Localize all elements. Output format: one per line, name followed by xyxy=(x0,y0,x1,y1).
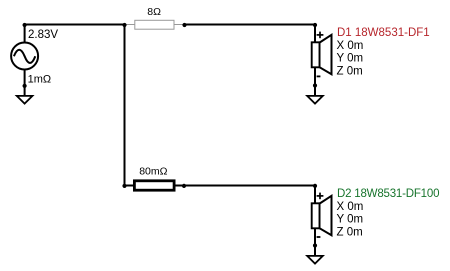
speaker driver D1 xyxy=(312,25,332,86)
resistor R2 80m ohm xyxy=(125,181,185,190)
wire D2 to ground xyxy=(314,246,316,257)
svg-text:Z 0m: Z 0m xyxy=(337,65,363,77)
svg-text:2.83V: 2.83V xyxy=(28,29,58,41)
plus terminal mark D1 xyxy=(317,32,324,39)
wire source bottom to ground xyxy=(24,86,26,97)
plus terminal mark D2 xyxy=(317,193,324,200)
svg-text:1mΩ: 1mΩ xyxy=(28,74,52,86)
minus terminal mark D1 xyxy=(317,75,321,77)
ground under source xyxy=(17,96,33,104)
ground under D2 xyxy=(307,256,323,264)
node junction dot at source bottom xyxy=(23,84,27,88)
svg-text:Z 0m: Z 0m xyxy=(337,226,363,238)
svg-text:D1 18W8531-DF1: D1 18W8531-DF1 xyxy=(337,27,430,39)
junction dot under D1 xyxy=(313,83,317,87)
wire from R1 to driver D1 xyxy=(185,24,316,26)
wire top from source to R1 xyxy=(25,24,125,26)
svg-text:Y 0m: Y 0m xyxy=(337,214,364,226)
svg-text:X 0m: X 0m xyxy=(337,201,364,213)
svg-text:X 0m: X 0m xyxy=(337,40,364,52)
svg-text:Y 0m: Y 0m xyxy=(337,53,364,65)
svg-text:D2 18W8531-DF100: D2 18W8531-DF100 xyxy=(337,188,439,200)
wire lower from R2 to driver D2 xyxy=(184,185,315,187)
svg-text:80mΩ: 80mΩ xyxy=(139,166,167,178)
junction dot under D2 xyxy=(313,243,317,247)
wire vertical branch to lower network xyxy=(124,25,126,186)
ground under D1 xyxy=(307,96,323,104)
junction dot at driver D2 input xyxy=(313,184,317,188)
node junction dot at source top xyxy=(23,23,27,27)
resistor R1 8 ohm (greyed) xyxy=(126,20,183,29)
wire D1 to ground xyxy=(314,85,316,96)
junction dot R2 right xyxy=(182,184,186,188)
svg-text:8Ω: 8Ω xyxy=(147,6,161,18)
junction dot R2 left xyxy=(122,184,126,188)
junction dot R1 right xyxy=(182,23,186,27)
minus terminal mark D2 xyxy=(317,236,321,238)
junction dot R1 left xyxy=(122,23,126,27)
voltage source V1 xyxy=(11,25,38,86)
speaker driver D2 xyxy=(312,186,332,246)
junction dot at driver D1 input xyxy=(313,23,317,27)
